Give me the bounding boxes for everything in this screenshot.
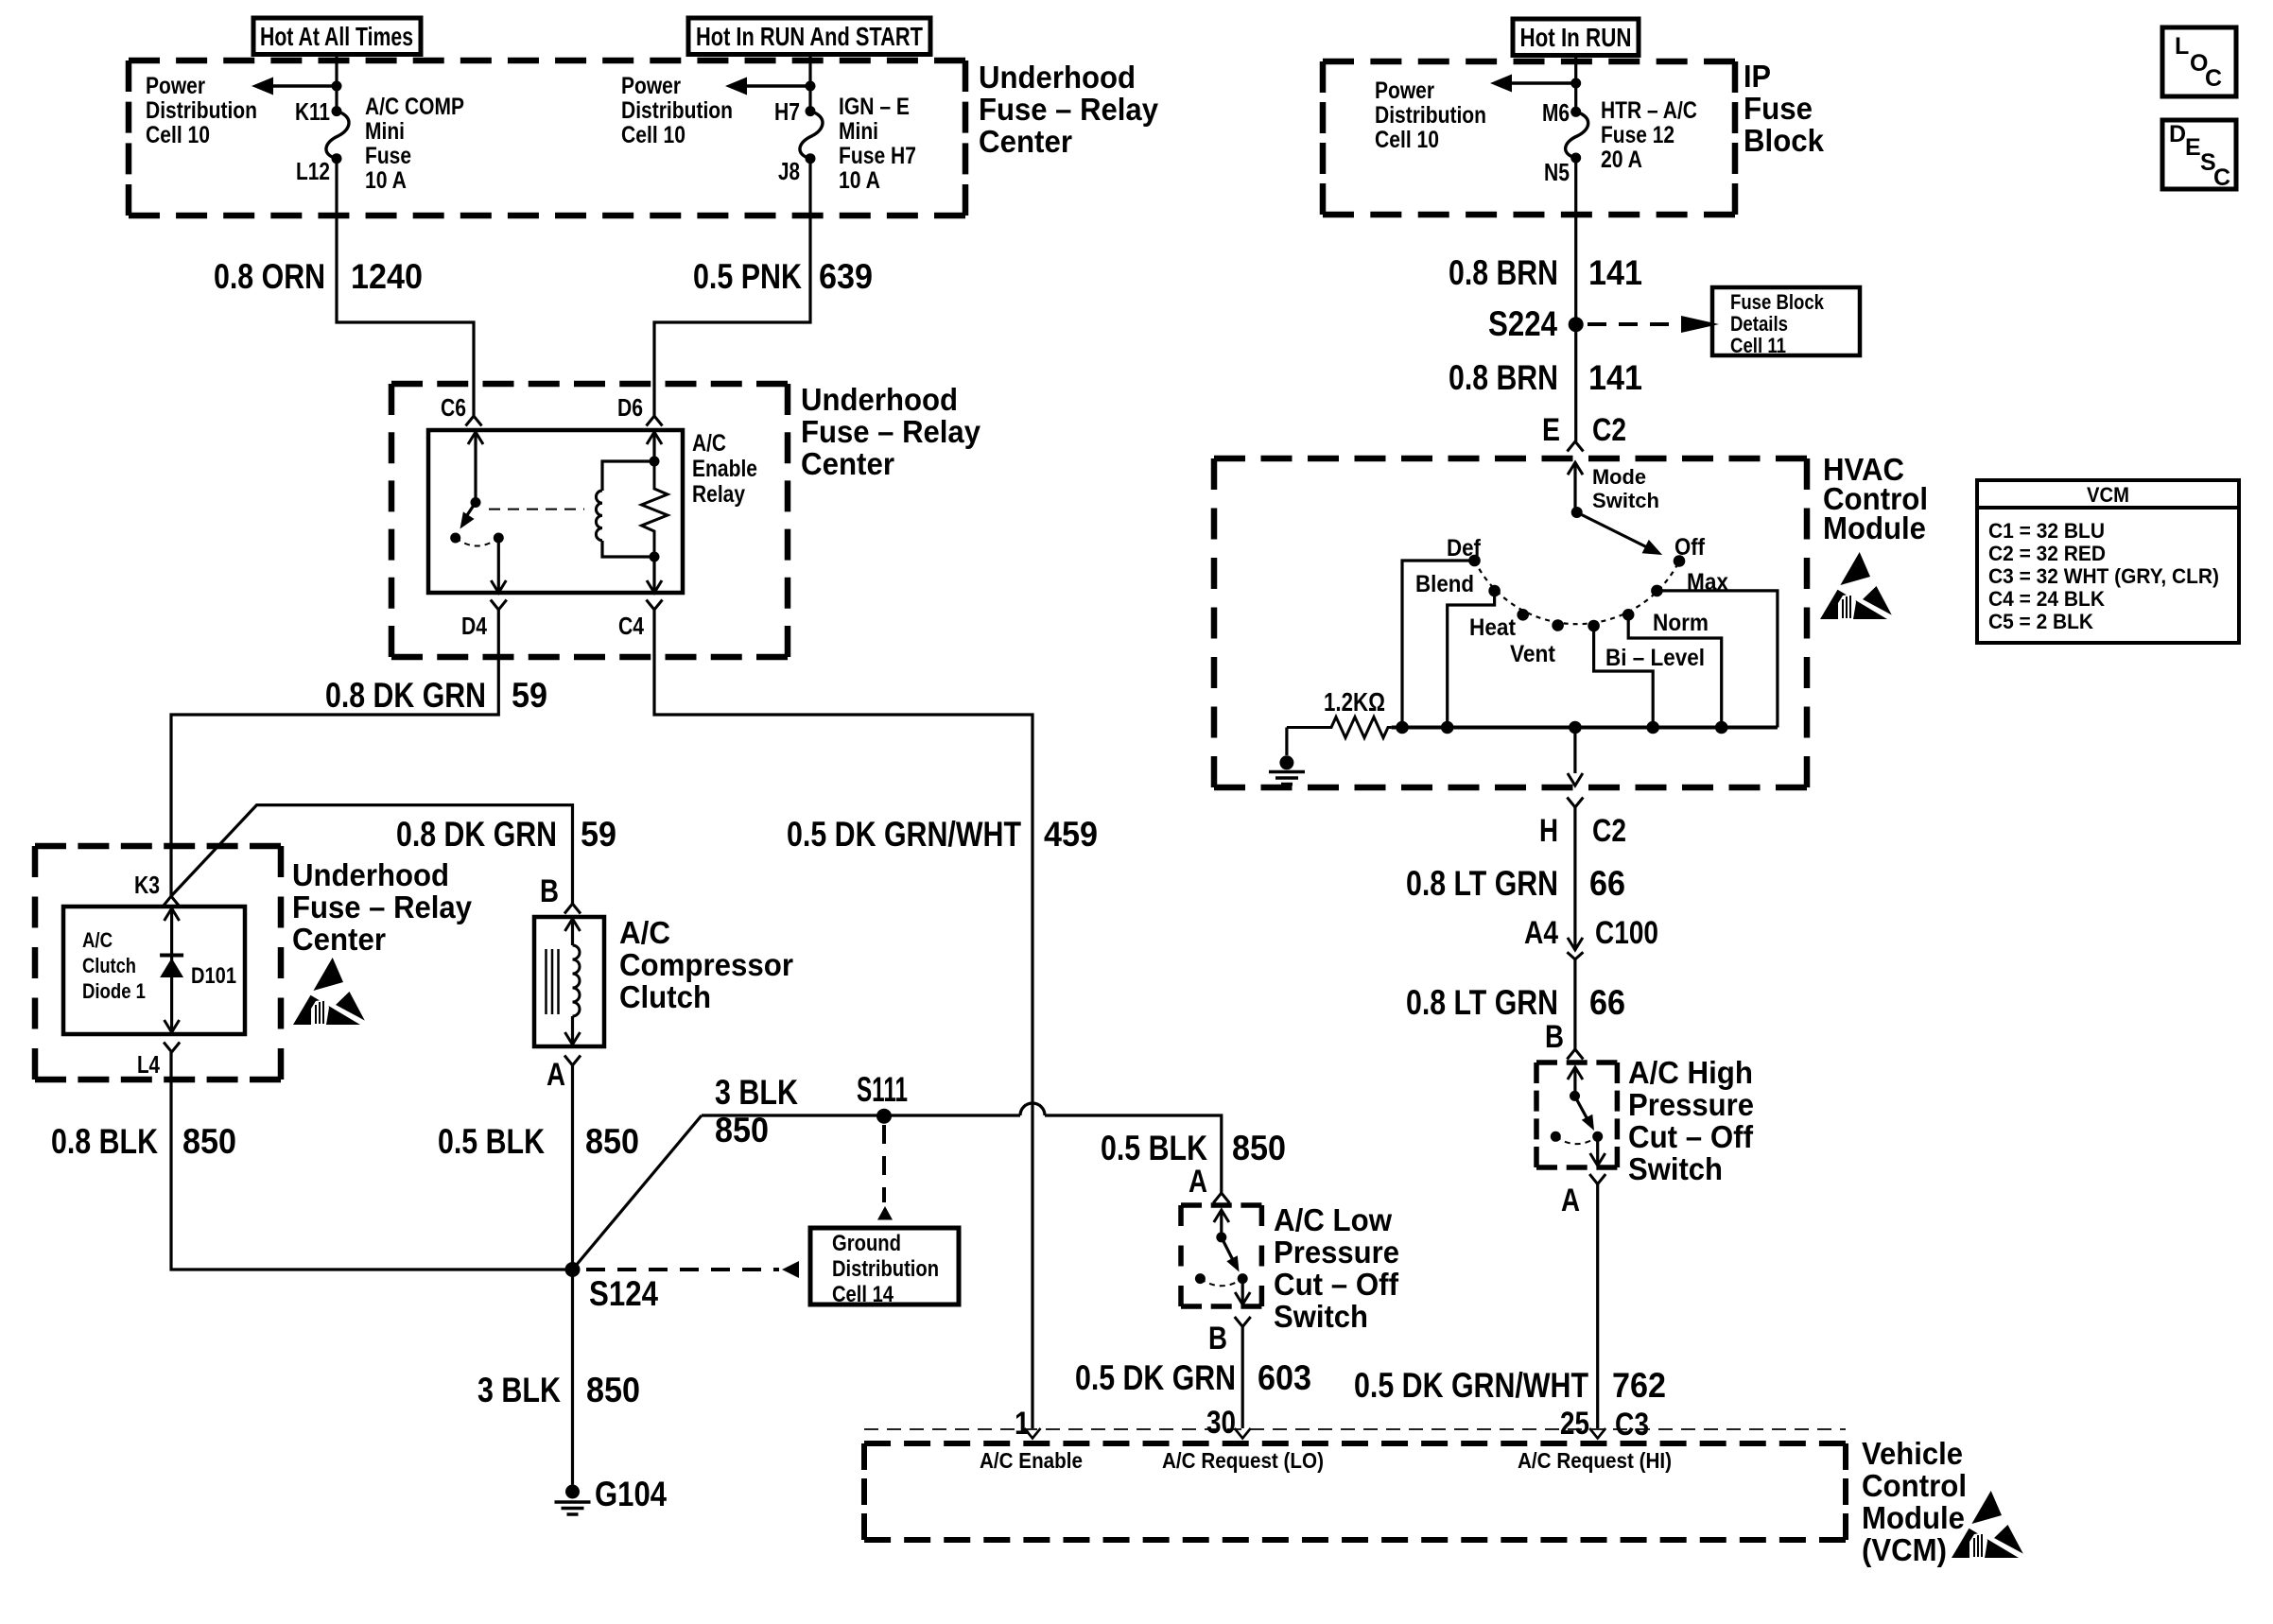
svg-text:Bi – Level: Bi – Level — [1605, 645, 1705, 671]
text A/C COMP Mini Fuse 10 A — [365, 94, 464, 194]
mode label Norm — [1653, 610, 1709, 636]
svg-text:Fuse – Relay: Fuse – Relay — [292, 890, 472, 925]
svg-text:IGN – E: IGN – E — [839, 94, 910, 120]
DESC legend box — [2162, 120, 2236, 191]
svg-text:C4 = 24 BLK: C4 = 24 BLK — [1988, 587, 2105, 611]
svg-text:Relay: Relay — [692, 481, 745, 508]
fuse HTR-A/C Fuse 12 20 A (M6-N5) — [1566, 107, 1588, 164]
wire from C100 to high pressure switch B — [1573, 959, 1576, 1049]
svg-text:C: C — [2213, 164, 2230, 191]
wire Heat contact to bus — [1448, 591, 1495, 728]
svg-text:Blend: Blend — [1415, 571, 1474, 597]
wire Bi-Level contact to bus — [1594, 626, 1654, 728]
svg-text:A/C High: A/C High — [1628, 1056, 1753, 1091]
svg-text:H7: H7 — [774, 97, 800, 126]
svg-text:Power: Power — [621, 73, 681, 99]
HVAC output arrow (H internal) — [1568, 728, 1583, 786]
splice label S224 — [1488, 304, 1557, 343]
svg-text:A/C Low: A/C Low — [1274, 1203, 1393, 1238]
wire label 0.5 DK GRN/WHT 459 — [787, 815, 1098, 854]
svg-text:Hot In RUN And START: Hot In RUN And START — [696, 22, 923, 51]
svg-text:0.5 BLK: 0.5 BLK — [1101, 1129, 1207, 1167]
svg-text:S111: S111 — [857, 1070, 908, 1109]
svg-text:Cell 11: Cell 11 — [1730, 334, 1786, 357]
mode label Heat — [1469, 614, 1517, 641]
bus junction dot (output) — [1569, 721, 1582, 734]
svg-text:VCM: VCM — [2087, 483, 2129, 507]
diode D101 symbol — [160, 908, 183, 1032]
text 1.2K ohm — [1324, 687, 1385, 717]
svg-text:762: 762 — [1612, 1366, 1666, 1405]
svg-text:Off: Off — [1674, 534, 1706, 561]
svg-text:Underhood: Underhood — [801, 383, 958, 418]
mode label Blend — [1415, 571, 1474, 597]
svg-text:C: C — [2205, 65, 2222, 92]
svg-text:Pressure: Pressure — [1628, 1088, 1754, 1123]
HVAC bus wire — [1392, 726, 1778, 730]
mode contact dot Max — [1651, 585, 1663, 597]
wire label 0.8 DK GRN 59 (row2) — [396, 815, 616, 854]
svg-text:Clutch: Clutch — [82, 954, 136, 977]
svg-text:Fuse 12: Fuse 12 — [1601, 122, 1674, 148]
svg-text:B: B — [540, 873, 559, 909]
wire from high pressure switch A to VCM pin 25 — [1596, 1184, 1599, 1428]
svg-text:A/C: A/C — [692, 430, 726, 457]
VCM pin 1 chevron — [1025, 1428, 1041, 1439]
VCM connector pin row dashed line — [864, 1428, 1846, 1430]
svg-text:Cell 10: Cell 10 — [621, 122, 685, 148]
svg-text:Distribution: Distribution — [832, 1256, 939, 1282]
svg-text:K11: K11 — [295, 97, 330, 126]
wire label 0.8 BRN 141 (lower) — [1449, 358, 1642, 397]
pin label A4 — [1524, 915, 1558, 951]
terminal label L12 — [296, 157, 330, 185]
svg-text:0.8 DK GRN: 0.8 DK GRN — [396, 815, 557, 854]
svg-text:850: 850 — [586, 1371, 640, 1409]
S124 reference dashed arrow to Ground Distribution — [586, 1261, 799, 1278]
svg-text:3 BLK: 3 BLK — [715, 1073, 798, 1112]
svg-text:3 BLK: 3 BLK — [477, 1371, 561, 1409]
svg-text:0.8 LT GRN: 0.8 LT GRN — [1406, 983, 1558, 1022]
svg-text:Norm: Norm — [1653, 610, 1709, 636]
svg-text:1240: 1240 — [351, 257, 423, 296]
wire from compressor A to G104 ground — [571, 1065, 574, 1485]
splice S224 dot — [1569, 317, 1584, 332]
terminal label D4 — [461, 612, 487, 640]
svg-text:Switch: Switch — [1592, 489, 1659, 512]
A/C high pressure cut-off switch dashed box — [1536, 1063, 1617, 1167]
svg-text:Power: Power — [146, 73, 205, 99]
pin label C2 (top) — [1592, 412, 1626, 448]
arrow to power distribution (left) — [252, 78, 337, 95]
splice label S124 — [589, 1274, 658, 1313]
svg-text:Fuse Block: Fuse Block — [1730, 290, 1825, 314]
section title IP Fuse Block — [1744, 60, 1824, 159]
svg-text:850: 850 — [182, 1122, 236, 1161]
svg-text:0.8 LT GRN: 0.8 LT GRN — [1406, 864, 1558, 903]
relay contact dot right — [494, 533, 504, 544]
svg-text:1: 1 — [1015, 1406, 1030, 1442]
svg-text:10 A: 10 A — [839, 167, 880, 194]
svg-text:66: 66 — [1589, 864, 1625, 903]
svg-text:C3 = 32 WHT (GRY, CLR): C3 = 32 WHT (GRY, CLR) — [1988, 564, 2219, 588]
svg-text:0.5 DK GRN/WHT: 0.5 DK GRN/WHT — [1354, 1366, 1588, 1405]
svg-text:Distribution: Distribution — [1375, 102, 1486, 129]
svg-text:D6: D6 — [617, 393, 643, 422]
svg-text:Fuse – Relay: Fuse – Relay — [801, 415, 980, 450]
compressor clutch coil — [565, 919, 581, 1045]
svg-text:A/C COMP: A/C COMP — [365, 94, 464, 120]
svg-text:59: 59 — [581, 815, 616, 854]
svg-text:Cell 14: Cell 14 — [832, 1282, 894, 1307]
ground bus wire with hop over enable wire — [702, 1103, 1222, 1193]
text Power Distribution Cell 10 (right) — [1375, 78, 1486, 153]
wire label 0.8 ORN 1240 — [214, 257, 423, 296]
wire Max contact to bus — [1657, 591, 1778, 728]
svg-text:Underhood: Underhood — [979, 60, 1136, 95]
pin label E — [1542, 412, 1560, 448]
wire label 0.5 BLK 850 (compressor) — [438, 1122, 639, 1161]
svg-text:Ground: Ground — [832, 1231, 901, 1256]
section title HVAC Control Module — [1823, 453, 1928, 546]
connector H C2 chevron — [1567, 798, 1583, 808]
wire from Hot At All Times down to relay C6 — [337, 54, 474, 416]
svg-text:Center: Center — [979, 125, 1072, 160]
svg-text:Underhood: Underhood — [292, 858, 449, 893]
terminal label M6 — [1542, 98, 1570, 127]
pin label 25 — [1560, 1406, 1589, 1442]
svg-text:0.8 BRN: 0.8 BRN — [1449, 358, 1558, 397]
svg-text:A/C Request (HI): A/C Request (HI) — [1518, 1448, 1672, 1473]
section title Underhood Fuse-Relay Center (diode) — [292, 858, 472, 958]
wire label 0.8 LT GRN 66 (upper) — [1406, 864, 1625, 903]
LOC legend box — [2162, 27, 2236, 96]
wire label 3 BLK 850 (to G104) — [477, 1371, 640, 1409]
relay D4 internal post with arrow — [491, 538, 506, 593]
relay D6 internal post with arrow — [647, 432, 662, 461]
svg-text:J8: J8 — [778, 157, 800, 185]
svg-text:Heat: Heat — [1469, 614, 1517, 641]
pin label C100 — [1595, 915, 1658, 951]
svg-text:A/C Request (LO): A/C Request (LO) — [1162, 1448, 1324, 1473]
svg-text:20 A: 20 A — [1601, 147, 1642, 173]
terminal label N5 — [1544, 158, 1570, 186]
svg-text:A/C Enable: A/C Enable — [980, 1448, 1083, 1473]
svg-text:141: 141 — [1588, 358, 1642, 397]
svg-text:Vehicle: Vehicle — [1862, 1437, 1963, 1472]
svg-text:Fuse: Fuse — [1744, 92, 1813, 127]
svg-text:850: 850 — [1232, 1129, 1286, 1167]
ESD sensitivity symbol (diode box) — [293, 958, 365, 1025]
svg-text:0.8 DK GRN: 0.8 DK GRN — [325, 676, 486, 715]
relay actuation dashed link — [489, 509, 584, 510]
underhood fuse-relay center dashed box (diode) — [35, 846, 281, 1080]
wire from L4 to S124 — [171, 1052, 573, 1270]
text Mode Switch — [1592, 465, 1659, 512]
svg-text:Def: Def — [1447, 535, 1482, 561]
svg-text:0.8 BLK: 0.8 BLK — [51, 1122, 158, 1161]
A/C compressor clutch box — [534, 917, 604, 1046]
svg-text:A4: A4 — [1524, 915, 1558, 951]
pin label A (compressor) — [547, 1057, 565, 1093]
pin label A (high pressure) — [1561, 1183, 1580, 1218]
svg-text:L: L — [2175, 33, 2189, 60]
terminal label C6 — [441, 393, 466, 422]
section title A/C High Pressure Cut-Off Switch — [1628, 1056, 1754, 1187]
wire Norm contact to bus — [1628, 614, 1722, 727]
svg-text:C2 = 32 RED: C2 = 32 RED — [1988, 542, 2106, 565]
diode D101 box — [63, 907, 245, 1034]
svg-text:E: E — [1542, 412, 1560, 448]
pin label A (low pressure) — [1189, 1164, 1207, 1200]
svg-text:Switch: Switch — [1628, 1152, 1723, 1187]
text IGN-E Mini Fuse H7 10 A — [839, 94, 916, 194]
wire label 0.8 BRN 141 (upper) — [1449, 253, 1642, 292]
underhood fuse-relay center dashed box (top) — [129, 60, 965, 216]
svg-text:Control: Control — [1862, 1469, 1967, 1504]
text A/C Enable Relay — [692, 430, 757, 508]
wire from Hot In RUN down to HVAC E — [1574, 56, 1577, 442]
wire label 0.8 DK GRN 59 (row1) — [325, 676, 547, 715]
relay contact dot left — [450, 533, 460, 544]
text Fuse Block Details Cell 11 — [1730, 290, 1825, 357]
svg-text:A: A — [1189, 1164, 1207, 1200]
svg-text:Fuse – Relay: Fuse – Relay — [979, 93, 1158, 128]
text A/C Compressor Clutch — [619, 916, 793, 1015]
compressor clutch terminal B chevron — [564, 904, 581, 914]
splice S111 dot — [876, 1109, 892, 1124]
section title Vehicle Control Module (VCM) — [1862, 1437, 1967, 1568]
wire label 0.5 DK GRN/WHT 762 — [1354, 1366, 1666, 1405]
A/C low pressure cut-off switch dashed box — [1181, 1205, 1261, 1306]
svg-text:Module: Module — [1823, 511, 1926, 546]
wire label 0.8 BLK 850 — [51, 1122, 236, 1161]
svg-text:639: 639 — [819, 257, 873, 296]
HVAC control module dashed box — [1214, 458, 1807, 787]
svg-text:C6: C6 — [441, 393, 466, 422]
pin name A/C Request (LO) — [1162, 1448, 1324, 1473]
svg-text:C5 = 2 BLK: C5 = 2 BLK — [1988, 610, 2093, 633]
underhood fuse-relay center dashed box (relay) — [391, 384, 788, 657]
resistor 1.2K ohm — [1287, 717, 1392, 738]
svg-text:M6: M6 — [1542, 98, 1570, 127]
high pressure switch terminal B chevron — [1567, 1049, 1583, 1060]
pin label H — [1539, 813, 1558, 849]
relay C6 internal post with arrow — [468, 432, 483, 503]
svg-text:Switch: Switch — [1274, 1300, 1368, 1335]
section title Underhood Fuse-Relay Center (relay) — [801, 383, 980, 482]
IP fuse block dashed box — [1323, 61, 1735, 215]
wire label 0.5 BLK 850 (low pressure) — [1101, 1129, 1286, 1167]
S224 reference dashed arrow to Fuse Block Details — [1588, 316, 1719, 333]
pin name A/C Enable — [980, 1448, 1083, 1473]
splice label S111 — [857, 1070, 908, 1109]
arrow to power distribution (middle) — [725, 78, 810, 95]
svg-text:(VCM): (VCM) — [1862, 1533, 1947, 1568]
mode label Vent — [1510, 641, 1556, 667]
mode label Bi-Level — [1605, 645, 1705, 671]
text HTR-A/C Fuse 12 20 A — [1601, 97, 1697, 173]
pin label B (high pressure) — [1545, 1019, 1564, 1055]
relay coil windings — [596, 491, 602, 541]
pin label 30 — [1206, 1405, 1236, 1441]
high pressure switch terminal A chevron — [1589, 1174, 1605, 1184]
fuse IGN-E Mini Fuse H7 10 A (H7-J8) — [800, 106, 823, 164]
svg-text:Compressor: Compressor — [619, 948, 793, 983]
svg-text:C100: C100 — [1595, 915, 1658, 951]
terminal label K11 — [295, 97, 330, 126]
VCM pin 30 chevron — [1235, 1428, 1251, 1439]
svg-text:Cell 10: Cell 10 — [1375, 127, 1439, 153]
low pressure switch internal — [1195, 1210, 1250, 1304]
terminal label J8 — [778, 157, 800, 185]
relay terminal D4 chevron — [491, 600, 507, 611]
wire from K3 junction to compressor clutch B — [171, 805, 573, 904]
relay switch arm with arrowhead — [460, 503, 477, 529]
wire label 0.5 PNK 639 — [693, 257, 873, 296]
relay switch pivot dot — [471, 497, 481, 508]
svg-text:Pressure: Pressure — [1274, 1235, 1399, 1270]
section title Underhood Fuse-Relay Center (top) — [979, 60, 1158, 160]
svg-text:Distribution: Distribution — [621, 97, 733, 124]
junction dot at ign feed — [806, 81, 816, 92]
HVAC internal ground — [1269, 728, 1305, 785]
ground G104 symbol — [555, 1485, 591, 1515]
diode terminal K3 chevron — [164, 896, 180, 907]
bus junction dot (Bi-Level) — [1646, 721, 1659, 734]
mode contact dot Blend — [1488, 585, 1501, 597]
svg-text:A: A — [547, 1057, 565, 1093]
wire label 3 BLK 850 (ground bus) — [715, 1073, 798, 1149]
svg-text:Block: Block — [1744, 124, 1824, 159]
svg-text:C2: C2 — [1592, 813, 1626, 849]
svg-text:Mini: Mini — [839, 118, 878, 145]
S111 reference dashed arrow to Ground Distribution — [877, 1125, 893, 1220]
relay terminal C4 chevron — [647, 600, 663, 611]
relay U1 A/C Enable Relay box — [428, 430, 683, 593]
VCM connector table box — [1977, 480, 2239, 643]
relay C4 internal post with arrow — [647, 557, 662, 593]
mode contact dot Vent — [1552, 619, 1564, 631]
svg-text:S224: S224 — [1488, 304, 1557, 343]
wire from low pressure switch B to VCM pin 30 — [1241, 1327, 1244, 1429]
mode switch rotary dashed arc — [1475, 561, 1680, 624]
pin label C2 (bottom) — [1592, 813, 1626, 849]
svg-text:Center: Center — [801, 447, 894, 482]
bus junction dot (Def) — [1396, 721, 1409, 734]
svg-text:459: 459 — [1044, 815, 1098, 854]
relay coil junction dot top — [650, 457, 660, 467]
svg-text:S124: S124 — [589, 1274, 658, 1313]
splice S124 dot — [565, 1262, 581, 1277]
low pressure switch terminal B chevron — [1235, 1317, 1251, 1327]
pin name A/C Request (HI) — [1518, 1448, 1672, 1473]
text Ground Distribution Cell 14 — [832, 1231, 939, 1307]
svg-text:0.5 PNK: 0.5 PNK — [693, 257, 802, 296]
vehicle control module dashed box — [864, 1443, 1846, 1540]
Ground Distribution Cell 14 box — [810, 1228, 959, 1304]
svg-text:Cut – Off: Cut – Off — [1274, 1268, 1399, 1303]
junction dot at htr feed — [1570, 78, 1581, 89]
wire diagonal from S124 to ground bus — [573, 1115, 703, 1270]
svg-text:Fuse: Fuse — [365, 143, 411, 169]
svg-text:Diode 1: Diode 1 — [82, 979, 146, 1003]
mode contact dot Def — [1468, 555, 1481, 567]
svg-text:30: 30 — [1206, 1405, 1236, 1441]
svg-text:Enable: Enable — [692, 456, 757, 482]
svg-text:C4: C4 — [618, 612, 644, 640]
svg-text:A: A — [1561, 1183, 1580, 1218]
relay coil branch — [602, 461, 654, 557]
svg-text:A/C: A/C — [82, 928, 113, 952]
mode label Max — [1687, 569, 1728, 596]
wire label 0.5 DK GRN 603 — [1075, 1358, 1311, 1397]
relay contact travel dashed arc — [456, 538, 499, 546]
Fuse Block Details Cell 11 box — [1712, 287, 1860, 355]
svg-text:0.5 DK GRN/WHT: 0.5 DK GRN/WHT — [787, 815, 1021, 854]
text D101 — [191, 963, 236, 989]
terminal label D6 — [617, 393, 643, 422]
low pressure switch terminal A chevron — [1213, 1193, 1229, 1203]
svg-text:Details: Details — [1730, 312, 1788, 336]
svg-text:0.8 ORN: 0.8 ORN — [214, 257, 325, 296]
svg-text:L4: L4 — [137, 1050, 160, 1079]
svg-text:E: E — [2185, 134, 2201, 161]
wire label 0.8 LT GRN 66 (lower) — [1406, 983, 1625, 1022]
svg-text:HTR – A/C: HTR – A/C — [1601, 97, 1697, 124]
compressor clutch terminal A chevron — [564, 1056, 581, 1066]
bus junction dot (Heat) — [1441, 721, 1454, 734]
svg-text:D4: D4 — [461, 612, 487, 640]
wire from Hot In RUN And START down to relay D6 — [654, 54, 810, 416]
svg-text:C3: C3 — [1615, 1407, 1649, 1443]
text A/C Clutch Diode 1 — [82, 928, 146, 1003]
mode label Def — [1447, 535, 1482, 561]
relay terminal C6 chevron — [466, 416, 482, 426]
mode label Off — [1674, 534, 1706, 561]
svg-text:Mini: Mini — [365, 118, 405, 145]
mode contact dot Off — [1674, 555, 1686, 567]
high pressure switch internal — [1551, 1067, 1605, 1166]
svg-text:10 A: 10 A — [365, 167, 407, 194]
ESD sensitivity symbol (VCM) — [1952, 1491, 2023, 1558]
ESD sensitivity symbol (HVAC) — [1820, 552, 1892, 619]
wire from H C2 down to connector C100 — [1573, 807, 1576, 950]
svg-text:0.5 BLK: 0.5 BLK — [438, 1122, 545, 1161]
svg-text:Vent: Vent — [1510, 641, 1556, 667]
svg-text:1.2KΩ: 1.2KΩ — [1324, 687, 1385, 717]
svg-text:66: 66 — [1589, 983, 1625, 1022]
svg-text:141: 141 — [1588, 253, 1642, 292]
wire Def contact to bus — [1402, 561, 1475, 728]
svg-text:59: 59 — [512, 676, 547, 715]
svg-text:25: 25 — [1560, 1406, 1589, 1442]
svg-text:A/C: A/C — [619, 916, 670, 951]
pin label 1 — [1015, 1406, 1030, 1442]
svg-text:N5: N5 — [1544, 158, 1570, 186]
VCM table rows — [1988, 519, 2219, 633]
junction dot at hot feed — [332, 81, 342, 92]
bus junction dot (Norm) — [1715, 721, 1728, 734]
svg-text:C2: C2 — [1592, 412, 1626, 448]
relay terminal D6 chevron — [647, 416, 663, 426]
terminal label H7 — [774, 97, 800, 126]
mode contact dot Norm — [1622, 609, 1635, 621]
mode contact dot Heat — [1517, 609, 1529, 621]
pin label B (low pressure) — [1208, 1321, 1227, 1356]
pin label B (compressor) — [540, 873, 559, 909]
terminal label K3 — [134, 871, 160, 899]
